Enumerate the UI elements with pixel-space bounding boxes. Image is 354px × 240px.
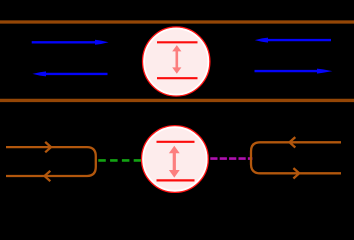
atom circle top (two-level atom) [143, 27, 210, 96]
chevron arrow on left loop top line (pointing right) [45, 142, 51, 152]
atom circle bottom (two-level atom) [142, 126, 209, 193]
blue arrow left-bottom (pointing left) [32, 71, 107, 76]
lower energy level (top atom) [157, 77, 198, 79]
transition double arrow (top atom) [172, 45, 181, 74]
blue arrow right-bottom (pointing right) [255, 69, 333, 74]
chevron arrow on left loop bottom line (pointing left) [45, 171, 51, 181]
lower energy level (bottom atom) [157, 179, 195, 181]
left fibre loop (hairpin) [6, 147, 96, 176]
right fibre loop (hairpin) [251, 142, 341, 173]
waveguide top wall (brown rail) [0, 20, 354, 23]
green dashed coupling line [98, 159, 146, 162]
blue arrow left-top (pointing right) [32, 40, 109, 45]
upper energy level (bottom atom) [157, 141, 195, 143]
blue arrow right-top (pointing left) [255, 38, 331, 43]
waveguide bottom wall (brown rail) [0, 99, 354, 102]
chevron arrow on right loop bottom line (pointing right) [293, 168, 299, 178]
chevron arrow on right loop top line (pointing left) [290, 137, 296, 147]
transition double arrow (bottom atom) [169, 146, 180, 178]
magenta dashed coupling line [210, 157, 252, 160]
upper energy level (top atom) [157, 41, 198, 43]
